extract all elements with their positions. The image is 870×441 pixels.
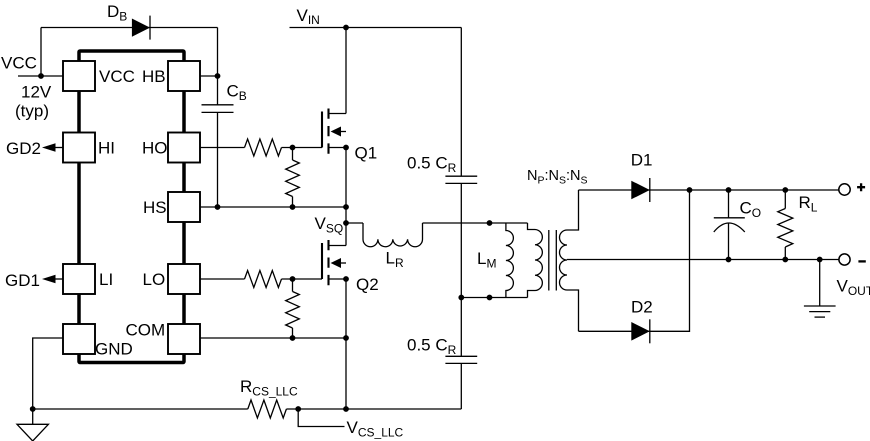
node VIN junction: [343, 25, 349, 31]
wire HB stub: [200, 75, 218, 77]
capacitor CB: [202, 105, 234, 113]
wire CR chain bottom: [460, 363, 462, 409]
inductor LR: [363, 223, 423, 247]
wire DB top: [41, 27, 218, 29]
node bottom rail spine junction: [343, 406, 349, 412]
node VCC junction: [38, 73, 44, 79]
pin box LO: [168, 264, 200, 294]
resistor Q1 gate: [245, 139, 282, 156]
svg-text:GD2: GD2: [6, 139, 41, 158]
pin box LI: [63, 264, 95, 294]
wire VIN rail: [290, 27, 462, 29]
ground earth right: [804, 260, 836, 318]
pin box HB: [168, 61, 200, 91]
pin box HI: [63, 133, 95, 163]
capacitor 0.5CR top: [445, 176, 477, 183]
svg-text:HI: HI: [98, 139, 115, 158]
diode DB: [132, 16, 150, 40]
wire VSQ to LR: [346, 222, 363, 224]
wire HO row: [200, 147, 245, 149]
wire GND exit: [33, 338, 63, 409]
node COM rail pulldown junction: [290, 335, 296, 341]
transistor Q1: [322, 109, 346, 154]
label minus: [858, 260, 865, 262]
node Q2 source junction: [343, 276, 349, 282]
node LM bottom junction: [487, 295, 493, 301]
svg-text:(typ): (typ): [15, 102, 49, 121]
wire bottom rail left: [33, 408, 248, 410]
resistor RCS_LLC: [248, 400, 287, 418]
node CO bottom junction: [726, 257, 732, 263]
svg-text:COM: COM: [126, 321, 166, 340]
node VCS tap junction: [295, 406, 301, 412]
label plus: [857, 183, 865, 191]
capacitor CO: [714, 218, 745, 232]
diode D1: [631, 178, 650, 202]
svg-text:12V: 12V: [21, 82, 52, 101]
node COM rail spine junction: [343, 335, 349, 341]
wire gate lead Q2: [282, 278, 323, 280]
wire RL bottom lead: [784, 247, 786, 260]
resistor Q1 pulldown: [286, 148, 300, 208]
wire HS row: [200, 206, 346, 208]
transformer primary winding: [528, 223, 543, 298]
wire plus rail: [648, 189, 840, 191]
wire primary bottom: [461, 297, 527, 299]
terminal plus: [839, 184, 850, 195]
wire Q1 source / VSQ spine: [345, 148, 347, 246]
wire CB riser bottom: [217, 112, 219, 207]
svg-text:VCC: VCC: [1, 53, 37, 72]
wire CR chain middle: [460, 183, 462, 356]
capacitor 0.5CR bottom: [445, 356, 477, 363]
wire CO top lead: [728, 190, 730, 218]
wire RL top lead: [784, 190, 786, 209]
svg-text:HB: HB: [142, 67, 166, 86]
node HS rail pulldown junction: [290, 204, 296, 210]
resistor Q2 gate: [245, 271, 282, 288]
wire DB branch riser: [40, 28, 42, 77]
ground triangle left: [17, 409, 48, 441]
wire GD1 lead: [47, 278, 63, 280]
wire VCC stub: [18, 75, 63, 77]
wire CB riser top: [217, 28, 219, 105]
resistor Q2 pulldown: [286, 279, 300, 338]
wire Q2 source down: [345, 279, 347, 409]
svg-text:VCC: VCC: [99, 67, 135, 86]
node HS-CB junction: [215, 204, 221, 210]
pin box HS: [168, 192, 200, 222]
node HS rail spine junction: [343, 204, 349, 210]
node RL top junction: [782, 187, 788, 193]
svg-text:Q1: Q1: [355, 144, 378, 163]
pin box COM: [168, 324, 200, 354]
wire LR to transformer: [423, 222, 528, 224]
svg-text:D1: D1: [631, 151, 653, 170]
node D1 cathode junction: [687, 187, 693, 193]
node CR mid junction: [458, 295, 464, 301]
node Q2 gate junction: [290, 276, 296, 282]
resistor RL: [778, 209, 793, 248]
node RL bottom junction: [782, 257, 788, 263]
diode D2: [631, 319, 650, 343]
node ground right junction: [817, 257, 823, 263]
pin box GND: [63, 324, 95, 354]
pin box VCC: [63, 61, 95, 91]
svg-text:GND: GND: [95, 340, 133, 359]
wire gate lead Q1: [282, 147, 323, 149]
node Q1 gate junction: [290, 145, 296, 151]
node VSQ: [343, 220, 349, 226]
arrow GD2: [42, 143, 56, 151]
transformer secondary winding: [560, 190, 579, 331]
wire D1 anode: [579, 189, 634, 191]
node Q1 source junction: [343, 145, 349, 151]
svg-text:HO: HO: [142, 139, 168, 158]
wire bottom rail right: [286, 408, 461, 410]
wire CO bottom lead: [728, 223, 730, 260]
inductor LM: [506, 223, 514, 298]
wire VCS_LLC tap: [298, 409, 344, 427]
svg-text:HS: HS: [143, 198, 167, 217]
wire D2 to plus riser: [648, 190, 690, 331]
pin box HO: [168, 133, 200, 163]
node HB junction: [215, 73, 221, 79]
node ground left junction: [30, 406, 36, 412]
svg-text:D2: D2: [631, 298, 653, 317]
wire minus rail (center tap): [567, 259, 840, 261]
op-amp U1 outline (gate driver IC): [79, 51, 184, 363]
svg-text:GD1: GD1: [5, 271, 40, 290]
svg-text:LO: LO: [143, 270, 166, 289]
wire COM row: [200, 337, 346, 339]
node CO top junction: [726, 187, 732, 193]
wire Q1 drain riser: [345, 28, 347, 114]
transistor Q2: [322, 240, 346, 285]
svg-text:Q2: Q2: [356, 275, 379, 294]
node LM top junction: [487, 220, 493, 226]
svg-text:LI: LI: [99, 270, 113, 289]
transformer core: [549, 230, 557, 291]
arrow GD1: [42, 275, 56, 283]
wire D2 anode: [579, 330, 634, 332]
svg-text:NP:NS:NS: NP:NS:NS: [527, 168, 588, 187]
wire LO row: [200, 278, 245, 280]
terminal minus: [839, 254, 850, 265]
wire CR chain top: [460, 28, 462, 177]
wire GD2 lead: [47, 147, 63, 149]
